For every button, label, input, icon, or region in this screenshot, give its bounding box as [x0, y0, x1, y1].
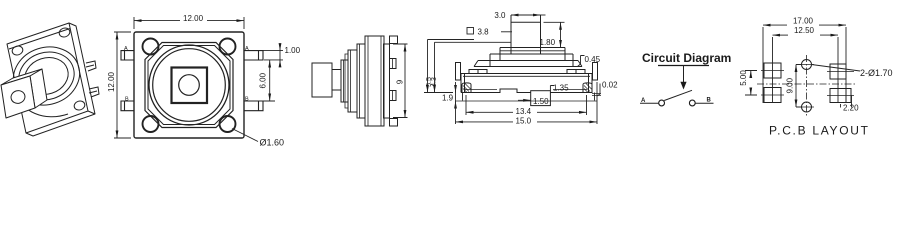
circuit wire left: [640, 102, 659, 104]
svg-text:2-Ø1.70: 2-Ø1.70: [860, 68, 893, 78]
side view pin upper: [390, 59, 397, 69]
dimension 9 (side height): [393, 44, 408, 118]
svg-text:9.00: 9.00: [786, 77, 795, 93]
dimension 5.00 (pad spacing): [745, 71, 757, 96]
svg-text:12.50: 12.50: [794, 26, 815, 35]
pcb pad left bottom: [764, 88, 781, 103]
side view plate 2: [348, 50, 357, 112]
pcb hole bottom: [802, 102, 812, 112]
section body right edge: [589, 74, 593, 93]
top view corner hole BR: [220, 116, 236, 132]
section contact bump right: [567, 70, 585, 74]
section center boss: [531, 91, 551, 106]
top view corner hole BL: [143, 116, 159, 132]
iso plate top face inner line: [9, 29, 70, 50]
section pin tip right: [594, 93, 596, 101]
svg-text:B: B: [245, 96, 249, 102]
svg-text:5.00: 5.00: [739, 70, 748, 86]
iso round boss outer: [6, 39, 87, 114]
pcb hole top: [802, 60, 812, 70]
iso pin lower: [89, 87, 99, 97]
iso plate face: [7, 23, 88, 133]
iso corner hole bottom-right: [73, 100, 86, 112]
dimension 1.80 (stem height): [544, 22, 566, 47]
svg-text:17.00: 17.00: [793, 16, 814, 25]
section cover top: [474, 61, 582, 67]
top view button center hole: [179, 75, 200, 96]
top view pin right upper: [244, 51, 263, 60]
section frame tab left: [456, 63, 461, 81]
top view pin left upper: [121, 51, 134, 60]
dimension Ø1.60 (corner hole) leader: [232, 129, 258, 142]
section stem: [511, 15, 541, 54]
section frame tab right: [593, 63, 598, 81]
side view main plate: [365, 36, 384, 126]
svg-text:2.20: 2.20: [843, 104, 859, 113]
side view plate 3: [357, 44, 365, 118]
section contact bump left: [469, 70, 487, 74]
circuit title underline: [658, 65, 709, 67]
svg-text:1.9: 1.9: [442, 94, 454, 103]
svg-text:6.00: 6.00: [259, 72, 268, 88]
svg-text:9: 9: [396, 79, 405, 84]
svg-text:B: B: [707, 98, 712, 104]
dimension 6.00 (pin spacing): [258, 60, 275, 101]
iso corner hole top-right: [58, 27, 71, 39]
svg-text:4.3: 4.3: [431, 77, 438, 87]
side view right thin plate: [384, 44, 390, 118]
side view pin lower: [390, 91, 397, 101]
svg-text:1.00: 1.00: [285, 46, 301, 55]
svg-text:Circuit Diagram: Circuit Diagram: [642, 51, 731, 65]
circuit switch lever: [664, 90, 692, 100]
circuit pointer arrow: [683, 66, 685, 84]
dimension 1.00 (pin width): [247, 44, 283, 67]
top view cover octagon: [145, 43, 233, 128]
iso corner hole top-left: [11, 45, 24, 57]
pcb pad right bottom: [830, 89, 851, 103]
svg-text:A: A: [245, 46, 249, 52]
dimension 1.35 leader: [550, 86, 554, 91]
iso pin upper: [86, 61, 99, 97]
svg-text:B: B: [125, 96, 129, 102]
section pin ear left (hatched): [462, 83, 471, 93]
section body interior line: [463, 75, 590, 77]
section inner bottom line: [465, 89, 587, 91]
top view button square: [172, 68, 208, 104]
iso round boss middle: [13, 45, 81, 107]
top view corner hole TL: [143, 39, 159, 55]
dimension 12.50: [773, 35, 839, 102]
svg-text:Ø1.60: Ø1.60: [260, 138, 285, 148]
section bottom profile with recess: [461, 89, 531, 93]
pcb pad left top: [764, 63, 781, 78]
side view button neck: [332, 70, 341, 91]
top view pin left lower: [121, 101, 134, 111]
top view body outline: [134, 32, 244, 138]
circuit wire right: [696, 102, 714, 104]
dimension 3.0 (stem width): [511, 14, 546, 16]
dimension 4.3 (body height): [435, 42, 512, 92]
dimension 5.5 (total height): [424, 40, 474, 93]
section layer2: [490, 54, 573, 67]
section pin ear right (hatched): [583, 83, 592, 93]
svg-text:1.80: 1.80: [540, 38, 556, 47]
pcb pad right top: [830, 64, 846, 79]
pcb pad centerline ticks: [761, 71, 854, 96]
top view boss outer circle: [149, 45, 229, 125]
dimension 2.20: [841, 95, 852, 108]
circuit contact left: [659, 100, 665, 106]
dimension 13.4: [466, 95, 587, 115]
svg-text:0.02: 0.02: [602, 81, 618, 90]
dimension 1.50 (boss): [518, 99, 531, 101]
top view boss ring circle: [153, 49, 226, 122]
dimension 2-Ø1.70 leader: [812, 65, 861, 72]
svg-text:3.8: 3.8: [478, 28, 490, 37]
section body top: [461, 73, 592, 75]
iso round boss inner: [20, 52, 73, 100]
dimension 15.0: [456, 82, 598, 124]
dimension square 3.8 (stem square): [467, 28, 474, 35]
side view bottom tab: [390, 119, 398, 127]
iso button hole: [10, 89, 27, 105]
svg-text:15.0: 15.0: [516, 116, 532, 125]
pcb centerline horizontal dash-dot: [757, 83, 857, 85]
circuit contact right: [689, 100, 695, 106]
side view plate 1: [341, 60, 348, 102]
svg-text:0.45: 0.45: [585, 55, 601, 64]
pcb hole crosshair ticks: [799, 65, 814, 108]
svg-text:12.00: 12.00: [107, 71, 116, 92]
svg-text:A: A: [124, 46, 128, 52]
dimension 0.02 leader: [597, 84, 600, 97]
side view button: [312, 63, 332, 97]
iso plate thickness edges: [26, 23, 95, 136]
svg-text:1.50: 1.50: [533, 97, 549, 106]
svg-text:13.4: 13.4: [516, 107, 532, 116]
section pin tip left: [462, 93, 464, 101]
side view top tab: [390, 36, 398, 44]
pcb centerline vertical dash-dot: [806, 55, 808, 116]
section body left edge: [461, 74, 465, 93]
top view corner hole TR: [220, 39, 236, 55]
dimension 1.9 (standoff): [455, 86, 457, 108]
top view pin right lower: [244, 101, 263, 111]
dimension 12.00 left (height): [114, 32, 131, 138]
dimension 12.00 top (width): [134, 17, 244, 29]
top view cover octagon inner line: [148, 46, 230, 125]
iso boss skirt arc: [17, 92, 68, 117]
iso button box: [1, 69, 47, 118]
section cap: [500, 48, 565, 61]
dimension 17.00: [763, 25, 846, 103]
svg-text:3.0: 3.0: [494, 11, 506, 20]
dimension 0.45 leader: [578, 56, 585, 67]
section cover bottom: [474, 66, 582, 68]
dimension 9.00 (hole spacing): [796, 65, 802, 108]
svg-text:12.00: 12.00: [183, 14, 204, 23]
section seating plane line: [455, 100, 597, 102]
svg-text:1.35: 1.35: [553, 84, 569, 93]
svg-text:P.C.B LAYOUT: P.C.B LAYOUT: [769, 124, 870, 138]
